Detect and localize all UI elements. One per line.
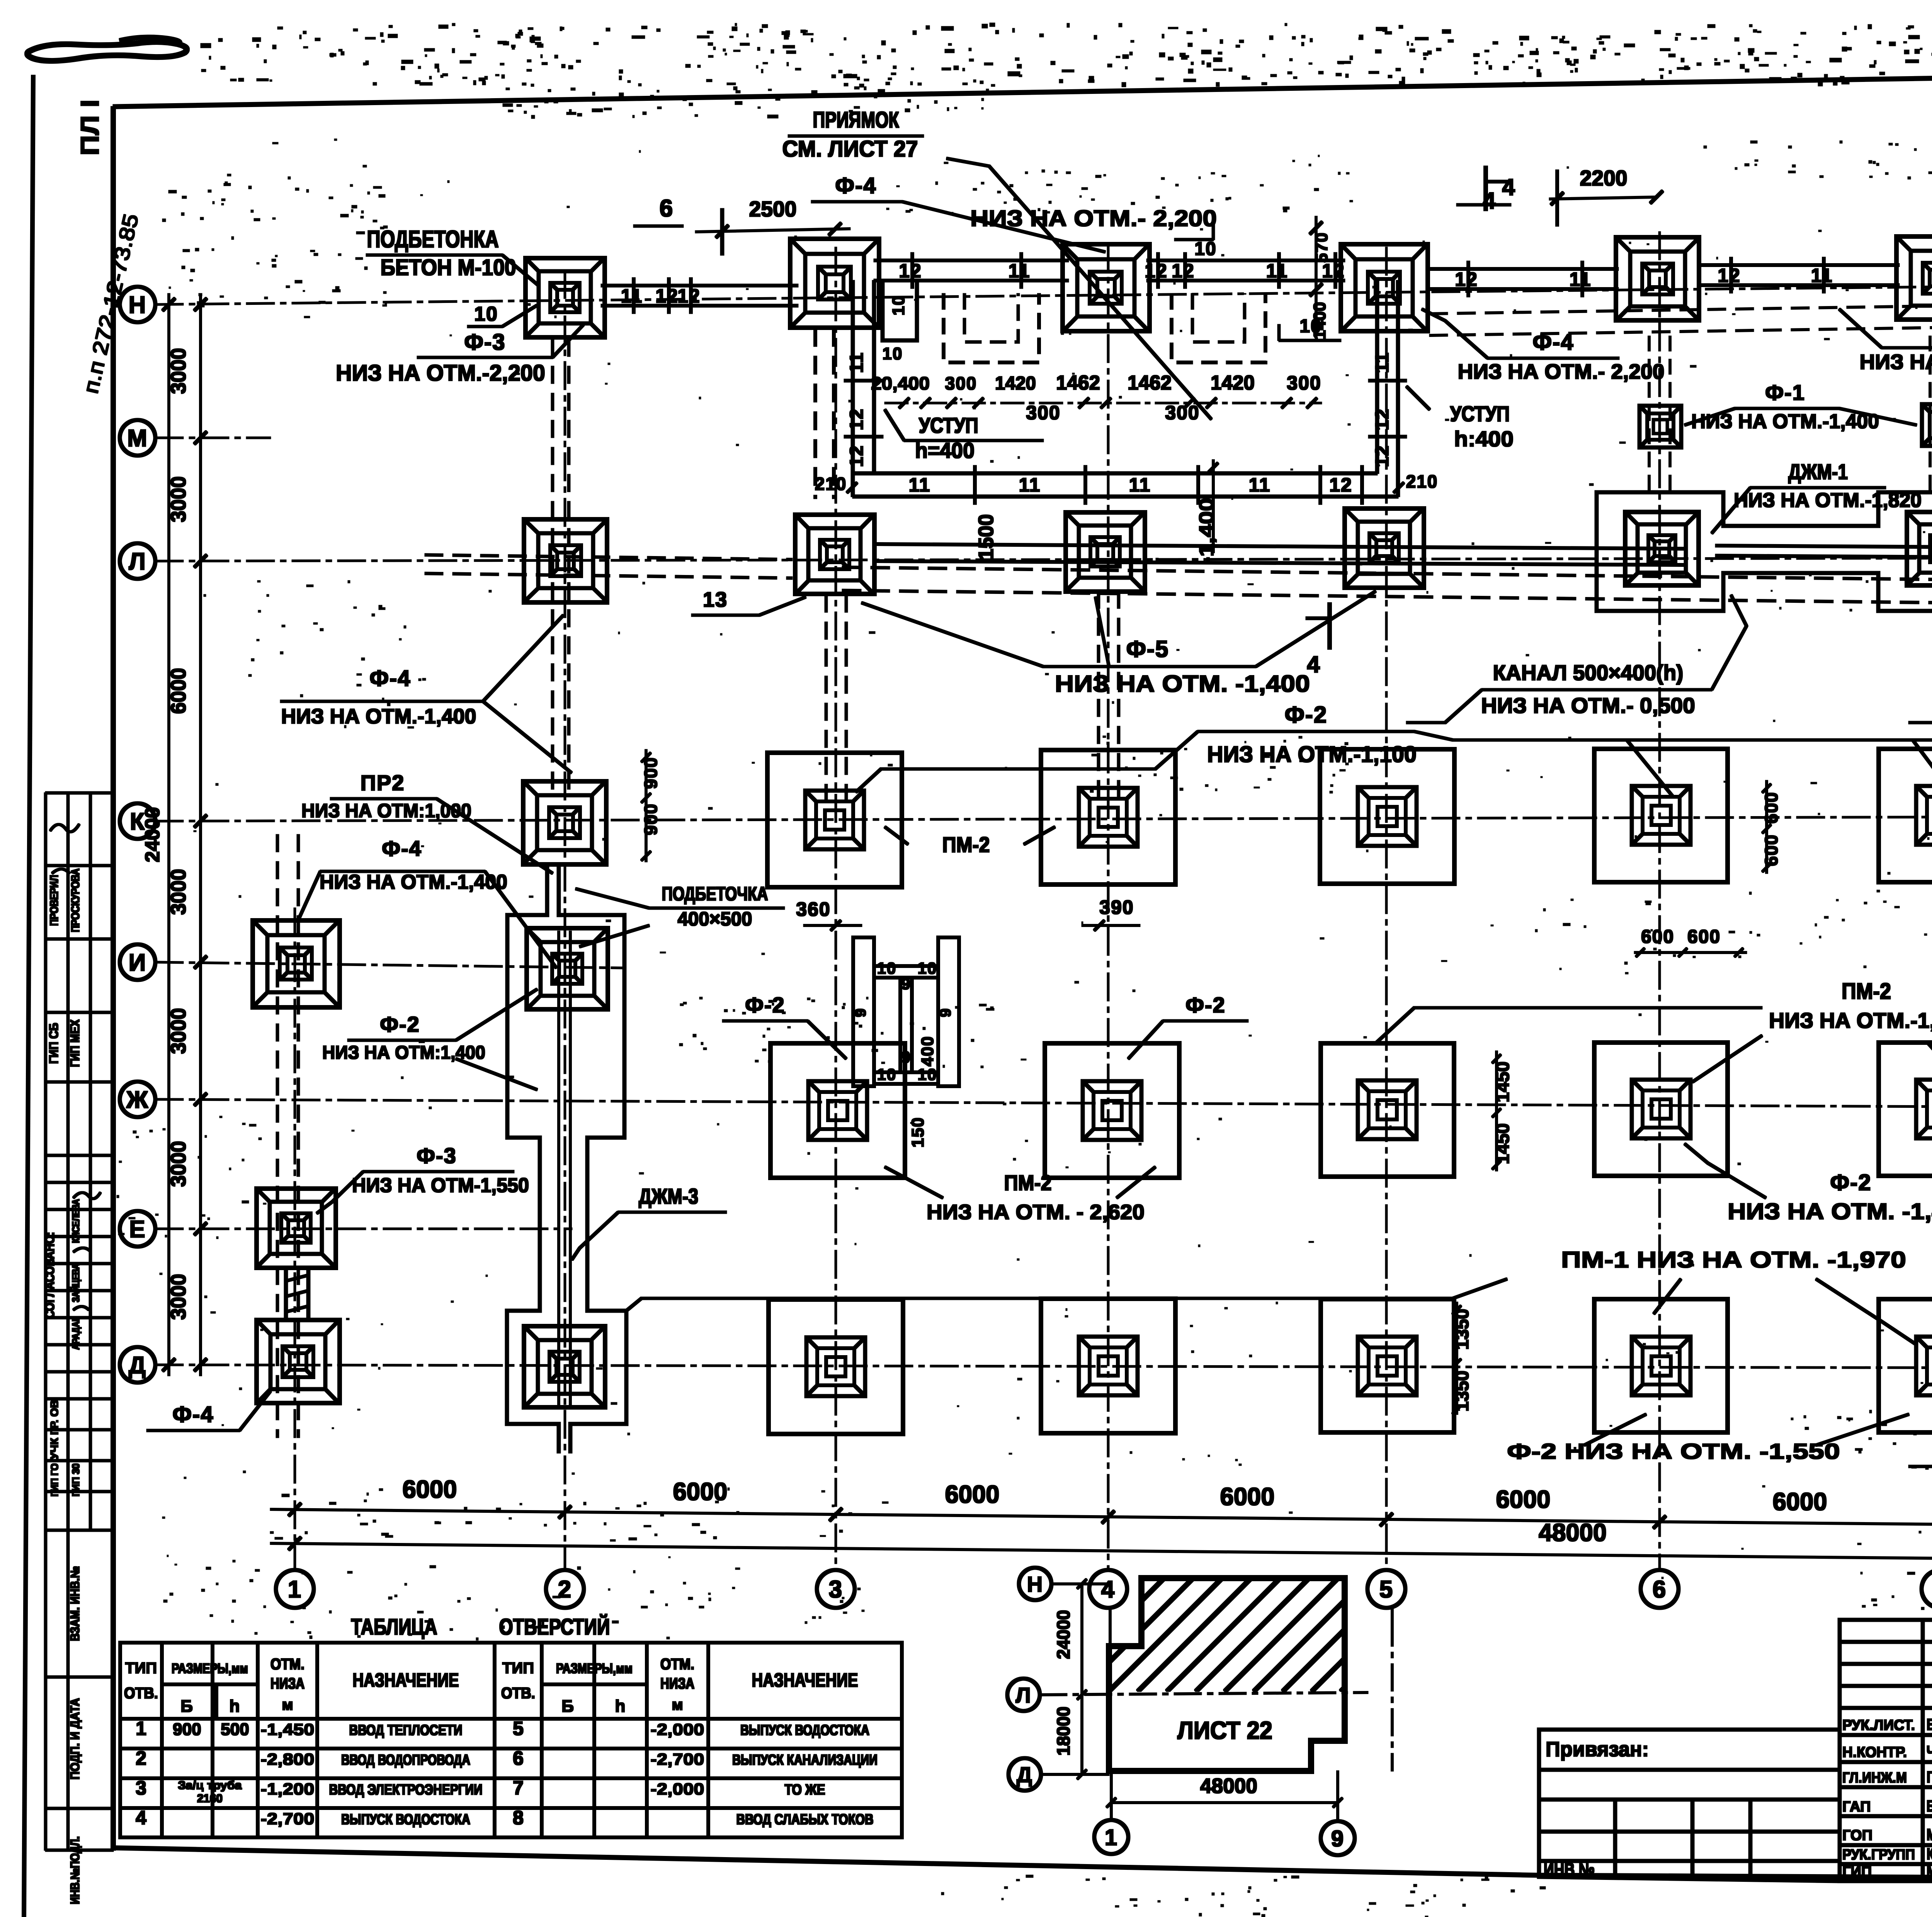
svg-text:300: 300: [1026, 402, 1060, 424]
svg-text:10: 10: [918, 959, 937, 977]
DZhM-1 outline: [1597, 492, 1723, 611]
svg-text:390: 390: [1099, 896, 1134, 918]
svg-text:10: 10: [877, 959, 897, 977]
pad F-5 3/L: [795, 515, 874, 594]
svg-text:Ф-2: Ф-2: [1285, 702, 1328, 728]
svg-text:6000: 6000: [1220, 1483, 1275, 1510]
svg-text:ОТМ.: ОТМ.: [660, 1656, 694, 1673]
dashed pair row L left: [425, 555, 792, 560]
svg-text:9: 9: [1331, 1826, 1344, 1851]
svg-text:НАЗНАЧЕНИЕ: НАЗНАЧЕНИЕ: [353, 1669, 459, 1691]
svg-text:ОТВ.: ОТВ.: [501, 1685, 535, 1702]
strip between 1/E and 1/D: [284, 1267, 287, 1322]
svg-text:6000: 6000: [1496, 1485, 1551, 1513]
row axis lines: [155, 281, 1932, 304]
pit dimension string: [885, 402, 1321, 404]
svg-text:6: 6: [1653, 1576, 1667, 1603]
svg-text:ГИП: ГИП: [1842, 1864, 1872, 1880]
svg-text:11: 11: [1266, 260, 1288, 282]
dashed col6/7 to M pads: [1648, 336, 1650, 491]
pad F-1 7/M: [1922, 404, 1932, 446]
svg-text:24000: 24000: [1053, 1610, 1073, 1659]
svg-text:Ф-4: Ф-4: [1532, 330, 1574, 355]
frame left: [111, 107, 116, 1850]
svg-text:ГИП ГО: ГИП ГО: [49, 1463, 60, 1497]
svg-text:11: 11: [1019, 474, 1041, 496]
svg-text:1: 1: [288, 1576, 302, 1603]
svg-text:ПМ-1 НИЗ НА ОТМ. -1,970: ПМ-1 НИЗ НА ОТМ. -1,970: [1561, 1247, 1906, 1272]
title block: [1539, 1620, 1932, 1881]
svg-text:ВЫПУСК ВОДОСТОКА: ВЫПУСК ВОДОСТОКА: [740, 1722, 869, 1738]
svg-text:600: 600: [1761, 792, 1781, 824]
svg-text:-1,400: -1,400: [1196, 498, 1218, 565]
svg-text:м: м: [282, 1696, 293, 1713]
svg-text:210: 210: [815, 474, 847, 494]
svg-text:1350: 1350: [1452, 1309, 1473, 1350]
svg-text:Л: Л: [1015, 1683, 1031, 1707]
svg-text:11: 11: [1249, 474, 1271, 496]
key plan: [1109, 1578, 1345, 1771]
svg-text:НИЗА: НИЗА: [660, 1675, 694, 1692]
duct inner line: [558, 931, 560, 1407]
svg-text:МАРКОВКИН: МАРКОВКИН: [1927, 1862, 1932, 1880]
svg-text:h: h: [615, 1697, 626, 1716]
svg-text:48000: 48000: [1539, 1519, 1607, 1546]
svg-text:НИЗ НА ОТМ.-2,200: НИЗ НА ОТМ.-2,200: [336, 361, 545, 386]
svg-text:9: 9: [852, 1008, 869, 1017]
svg-text:ТАБЛИЦА: ТАБЛИЦА: [351, 1614, 437, 1640]
svg-text:ДЖМ-3: ДЖМ-3: [639, 1184, 698, 1208]
svg-text:Н: Н: [1027, 1572, 1043, 1596]
pad 6/L: [1625, 512, 1699, 585]
svg-text:-2,000: -2,000: [651, 1780, 704, 1798]
svg-text:600: 600: [1641, 927, 1674, 947]
svg-text:УЧК ГР. ОВ: УЧК ГР. ОВ: [48, 1400, 60, 1459]
svg-text:БЕТОН М-100: БЕТОН М-100: [381, 255, 516, 280]
svg-text:Ф-2 НИЗ НА ОТМ. -1,550: Ф-2 НИЗ НА ОТМ. -1,550: [1507, 1439, 1840, 1463]
svg-text:3000: 3000: [167, 869, 190, 915]
svg-text:ТИП: ТИП: [502, 1660, 534, 1677]
svg-text:8: 8: [513, 1807, 524, 1829]
svg-text:м: м: [672, 1696, 683, 1713]
svg-text:Ф-2: Ф-2: [1185, 993, 1226, 1017]
left dimension chain: [168, 294, 170, 1376]
svg-text:4: 4: [1483, 188, 1496, 214]
svg-text:Ж: Ж: [126, 1087, 149, 1113]
pad PM-2 7/K: [1879, 749, 1932, 882]
svg-text:h: h: [230, 1697, 241, 1716]
svg-text:10: 10: [1194, 239, 1216, 259]
svg-text:300: 300: [1287, 372, 1321, 394]
svg-text:570: 570: [1312, 232, 1331, 262]
svg-text:Ф-4: Ф-4: [382, 836, 422, 861]
svg-text:ВВОД СЛАБЫХ ТОКОВ: ВВОД СЛАБЫХ ТОКОВ: [736, 1812, 874, 1828]
svg-text:ОТВЕРСТИЙ: ОТВЕРСТИЙ: [499, 1614, 610, 1640]
svg-text:Ф-4: Ф-4: [172, 1402, 214, 1427]
svg-text:СОГЛАСОВАНО:: СОГЛАСОВАНО:: [43, 1232, 57, 1318]
svg-text:11: 11: [621, 285, 643, 307]
svg-text:-2,800: -2,800: [261, 1750, 315, 1768]
pad F-4 5/N: [1341, 244, 1428, 332]
svg-text:18000: 18000: [1053, 1707, 1073, 1756]
dashed trench col2: [551, 339, 554, 796]
svg-text:1350: 1350: [1452, 1371, 1473, 1412]
svg-text:-2,000: -2,000: [651, 1720, 704, 1738]
pad PM-2 6/K: [1594, 749, 1728, 882]
svg-text:400: 400: [918, 1036, 937, 1066]
svg-text:ПРОВЕРИЛ: ПРОВЕРИЛ: [48, 875, 61, 926]
svg-text:ТИП: ТИП: [125, 1660, 157, 1677]
pad F-5 2/L: [524, 519, 607, 602]
pad F-4 4/N: [1063, 244, 1150, 332]
svg-text:6000: 6000: [403, 1475, 457, 1503]
svg-text:Ф-2: Ф-2: [1830, 1170, 1871, 1195]
svg-text:НИЗ НА ОТМ.-1,400: НИЗ НА ОТМ.-1,400: [281, 705, 476, 728]
frame bottom: [113, 1848, 1539, 1875]
svg-text:ГЛ.ИНЖ.М: ГЛ.ИНЖ.М: [1842, 1770, 1907, 1786]
svg-text:ВЫПУСК КАНАЛИЗАЦИИ: ВЫПУСК КАНАЛИЗАЦИИ: [732, 1752, 878, 1768]
svg-text:6000: 6000: [167, 668, 190, 714]
svg-text:12: 12: [899, 260, 922, 282]
svg-text:НИЗ НА ОТМ.- 1,400: НИЗ НА ОТМ.- 1,400: [1860, 350, 1932, 374]
svg-text:НИЗ НА ОТМ.-1,400: НИЗ НА ОТМ.-1,400: [320, 871, 507, 893]
pad PM-2 3/Zh: [770, 1043, 905, 1178]
pad F-4 2/D: [524, 1326, 605, 1407]
canal 500x400 dashed along L: [842, 567, 1932, 583]
svg-text:-2,700: -2,700: [651, 1750, 704, 1768]
svg-text:3000: 3000: [167, 1274, 190, 1320]
svg-text:9: 9: [937, 1008, 954, 1017]
svg-text:ГИП 30: ГИП 30: [70, 1463, 82, 1497]
svg-text:Привязан:: Привязан:: [1546, 1738, 1649, 1761]
svg-text:УСТУП: УСТУП: [919, 413, 978, 437]
svg-text:За/ц труба: За/ц труба: [178, 1779, 242, 1792]
pad PM-2 6/Zh: [1594, 1043, 1728, 1176]
svg-text:Н: Н: [129, 292, 147, 318]
svg-text:12: 12: [1455, 269, 1478, 290]
svg-text:3000: 3000: [167, 348, 190, 394]
sheet outer edge left: [24, 75, 33, 1917]
svg-text:Ф-2: Ф-2: [745, 993, 785, 1017]
pad PM-2 4/K: [1041, 750, 1175, 885]
svg-text:10: 10: [877, 1065, 897, 1084]
svg-text:7: 7: [513, 1777, 524, 1799]
svg-text:150: 150: [908, 1117, 927, 1147]
pit walls (priamok): [851, 281, 854, 497]
svg-text:12: 12: [1172, 260, 1195, 282]
svg-text:24000: 24000: [141, 807, 164, 862]
svg-text:h=400: h=400: [915, 438, 975, 463]
svg-text:Д: Д: [1017, 1762, 1033, 1787]
svg-text:ПРОСКУРОВА: ПРОСКУРОВА: [69, 869, 82, 932]
svg-text:6: 6: [513, 1747, 524, 1769]
svg-text:НИЗА: НИЗА: [270, 1675, 304, 1692]
svg-text:ТО ЖЕ: ТО ЖЕ: [785, 1782, 825, 1798]
svg-text:10: 10: [918, 1065, 937, 1084]
svg-text:ПМ-2: ПМ-2: [1004, 1170, 1052, 1195]
section mark 4 bottom: [1328, 603, 1332, 649]
svg-text:АРАДАК: АРАДАК: [70, 1317, 82, 1350]
svg-text:12: 12: [677, 285, 701, 307]
svg-text:10: 10: [883, 344, 903, 363]
svg-text:ИНВ №: ИНВ №: [1544, 1860, 1595, 1880]
svg-text:13: 13: [703, 588, 728, 611]
svg-text:ЧЕСОВА: ЧЕСОВА: [1927, 1742, 1932, 1761]
svg-text:НИЗ НА ОТМ.-1,820: НИЗ НА ОТМ.-1,820: [1734, 489, 1922, 512]
svg-text:Л: Л: [129, 548, 146, 575]
svg-text:Ф-1: Ф-1: [1765, 380, 1805, 405]
svg-text:6000: 6000: [945, 1480, 1000, 1508]
svg-text:12: 12: [847, 445, 867, 467]
key plan dims: [1081, 1584, 1083, 1774]
svg-text:Н.КОНТР.: Н.КОНТР.: [1842, 1744, 1907, 1761]
svg-text:360: 360: [796, 898, 830, 920]
svg-text:4: 4: [1101, 1576, 1115, 1603]
pad F-4 6/N: [1616, 237, 1699, 321]
svg-text:1462: 1462: [1056, 372, 1100, 394]
small duct frame 3-4/I-Zh: [853, 937, 959, 1086]
dashed trench col4: [1097, 591, 1100, 808]
svg-text:11: 11: [1570, 269, 1592, 290]
svg-text:НИЗ НА ОТМ. -1,400: НИЗ НА ОТМ. -1,400: [1055, 671, 1310, 697]
svg-text:48000: 48000: [1200, 1774, 1257, 1798]
svg-text:ДЖМ-1: ДЖМ-1: [1788, 459, 1848, 484]
svg-text:h:400: h:400: [1454, 427, 1514, 451]
svg-text:3000: 3000: [167, 1141, 190, 1187]
pit dashed trench right: [1172, 294, 1265, 362]
pad F-4 1/D: [257, 1320, 340, 1403]
pad PM-1 3/D: [769, 1300, 903, 1434]
pad F-3 1/E: [257, 1189, 336, 1268]
svg-text:Ф-4: Ф-4: [369, 666, 411, 691]
svg-text:ВЫПУСК ВОДОСТОКА: ВЫПУСК ВОДОСТОКА: [341, 1812, 470, 1828]
svg-text:ПР2: ПР2: [361, 771, 405, 795]
column axis circles: [276, 1570, 314, 1608]
svg-text:11: 11: [1009, 260, 1031, 282]
frame top: [113, 66, 1932, 107]
svg-text:КАРПАЧЕВА: КАРПАЧЕВА: [1927, 1845, 1932, 1863]
svg-text:Б: Б: [180, 1697, 194, 1716]
svg-text:2500: 2500: [749, 197, 797, 221]
pit dashed trench left: [944, 294, 1039, 362]
svg-text:КИСЕЛЕВА: КИСЕЛЕВА: [70, 1199, 82, 1243]
pad F-2 2/I: [527, 928, 608, 1009]
svg-text:12: 12: [847, 408, 867, 430]
svg-text:1420: 1420: [1211, 372, 1255, 394]
pad PM-2 4/Zh: [1045, 1043, 1179, 1178]
svg-text:ЛИСТ 22: ЛИСТ 22: [1177, 1716, 1272, 1744]
svg-text:ОТВ.: ОТВ.: [124, 1685, 158, 1702]
svg-text:ГАЙДВЕР: ГАЙДВЕР: [1927, 1767, 1932, 1786]
row axis circles: [120, 287, 155, 322]
svg-text:-2,700: -2,700: [261, 1810, 315, 1828]
svg-text:ПОДБЕТОЧКА: ПОДБЕТОЧКА: [662, 883, 768, 905]
svg-text:Ф-3: Ф-3: [464, 330, 505, 355]
svg-text:СМ. ЛИСТ 27: СМ. ЛИСТ 27: [782, 136, 918, 162]
svg-text:РАЗМЕРЫ,мм: РАЗМЕРЫ,мм: [172, 1660, 248, 1676]
svg-text:ПЛ I: ПЛ I: [75, 100, 104, 156]
svg-text:20,400: 20,400: [871, 373, 930, 393]
pad PM-1 5/D: [1321, 1299, 1454, 1432]
svg-text:4: 4: [1502, 174, 1515, 200]
trench dashed lines below strip N: [1430, 302, 1932, 314]
svg-text:Ф-3: Ф-3: [417, 1143, 457, 1168]
svg-text:УСТУП: УСТУП: [1450, 401, 1510, 426]
svg-text:2160: 2160: [197, 1792, 223, 1805]
pad F-5 4/L: [1066, 512, 1145, 592]
bottom dimension lines: [270, 1509, 1932, 1529]
pad PM-1 6/D: [1594, 1299, 1728, 1432]
svg-text:5: 5: [1379, 1576, 1393, 1603]
svg-text:ВЗАМ. ИНВ.№: ВЗАМ. ИНВ.№: [68, 1566, 82, 1641]
svg-text:300: 300: [1165, 402, 1199, 424]
svg-text:11: 11: [1811, 265, 1833, 286]
strip foundation along axis N: [601, 284, 798, 287]
pad F-4 7/N: [1896, 236, 1932, 320]
svg-text:ПМ-2: ПМ-2: [942, 832, 990, 857]
svg-text:600: 600: [1761, 834, 1781, 866]
dashed trench col1: [276, 835, 279, 1437]
svg-text:ПРИЯМОК: ПРИЯМОК: [813, 107, 899, 133]
svg-text:1: 1: [1105, 1825, 1118, 1850]
svg-text:12: 12: [1372, 408, 1393, 430]
svg-text:900: 900: [173, 1720, 201, 1739]
svg-text:Б: Б: [561, 1697, 575, 1716]
svg-text:2: 2: [136, 1747, 146, 1769]
svg-text:ГИП СБ: ГИП СБ: [47, 1023, 61, 1064]
svg-text:ГАП: ГАП: [1842, 1799, 1871, 1815]
svg-text:9: 9: [901, 975, 911, 993]
svg-text:ИНВ.№ПОДЛ.: ИНВ.№ПОДЛ.: [68, 1836, 82, 1904]
svg-text:6: 6: [660, 195, 673, 222]
svg-text:М: М: [127, 425, 148, 452]
strip along L: [877, 544, 1685, 549]
svg-text:5: 5: [513, 1718, 524, 1739]
svg-text:12: 12: [1372, 445, 1393, 467]
svg-text:3: 3: [136, 1777, 146, 1799]
svg-text:НИЗ НА ОТМ. - 2,620: НИЗ НА ОТМ. - 2,620: [927, 1201, 1145, 1224]
torn label marks: [27, 42, 187, 61]
svg-text:10: 10: [889, 295, 908, 316]
pad PM-2 5/Zh: [1321, 1043, 1454, 1177]
svg-text:И: И: [129, 949, 147, 976]
svg-text:-1,450: -1,450: [261, 1720, 315, 1738]
svg-text:11: 11: [847, 352, 867, 373]
svg-text:ЗАЙЦЕВА: ЗАЙЦЕВА: [70, 1264, 82, 1302]
svg-text:-1,200: -1,200: [261, 1780, 315, 1798]
svg-text:ВВОД ТЕПЛОСЕТИ: ВВОД ТЕПЛОСЕТИ: [349, 1722, 463, 1738]
svg-text:РУК.ЛИСТ.: РУК.ЛИСТ.: [1842, 1717, 1915, 1733]
svg-text:11: 11: [909, 474, 931, 496]
svg-text:БАРЫШЕВА: БАРЫШЕВА: [1927, 1797, 1932, 1815]
svg-text:НИЗ НА ОТМ.-1,820: НИЗ НА ОТМ.-1,820: [1769, 1008, 1932, 1032]
key plan axes: [1019, 1568, 1051, 1600]
pad PM-1 7/D: [1879, 1299, 1932, 1432]
svg-text:1500: 1500: [975, 514, 998, 560]
svg-text:ОТМ.: ОТМ.: [270, 1656, 304, 1673]
svg-text:НИЗ НА ОТМ. -1,400: НИЗ НА ОТМ. -1,400: [1728, 1199, 1932, 1224]
svg-text:ПОДП. И ДАТА: ПОДП. И ДАТА: [68, 1698, 82, 1780]
svg-text:6000: 6000: [673, 1478, 728, 1505]
svg-text:1420: 1420: [995, 373, 1036, 394]
svg-text:12: 12: [1329, 474, 1352, 496]
svg-text:900: 900: [641, 803, 661, 835]
pit stub wall: [883, 281, 917, 340]
pad PM-1 4/D: [1041, 1299, 1175, 1433]
pad F-5 5/L: [1345, 509, 1424, 588]
svg-text:Ф-5: Ф-5: [1126, 636, 1169, 662]
pad F-3 2/N: [526, 258, 605, 337]
svg-text:ГИП МЕХ: ГИП МЕХ: [68, 1019, 82, 1067]
pad F-4 3/N: [790, 239, 879, 328]
svg-text:ПМ-2: ПМ-2: [1842, 979, 1891, 1004]
svg-text:2: 2: [558, 1576, 572, 1603]
section mark 4 top: [1484, 166, 1488, 211]
svg-text:ПОДБЕТОНКА: ПОДБЕТОНКА: [367, 226, 499, 253]
svg-text:11: 11: [1372, 352, 1393, 373]
top dim 2500: [696, 229, 850, 232]
svg-text:НИЗ НА ОТМ.- 2,200: НИЗ НА ОТМ.- 2,200: [1458, 360, 1665, 383]
svg-text:400×500: 400×500: [678, 908, 752, 930]
pad F-1 6/M: [1639, 406, 1681, 447]
svg-text:4: 4: [136, 1807, 146, 1829]
svg-text:КАНАЛ 500×400(h): КАНАЛ 500×400(h): [1493, 660, 1684, 685]
svg-text:11: 11: [1129, 474, 1151, 496]
svg-text:Ф-4: Ф-4: [835, 173, 876, 198]
svg-text:6000: 6000: [1773, 1488, 1827, 1516]
svg-text:300: 300: [945, 373, 977, 393]
pad PM-2 5/K: [1320, 749, 1454, 884]
svg-text:600: 600: [1687, 927, 1721, 947]
svg-text:ГОП: ГОП: [1842, 1827, 1872, 1844]
svg-text:500: 500: [221, 1720, 249, 1739]
svg-text:НИЗ НА ОТМ:1,000: НИЗ НА ОТМ:1,000: [301, 800, 471, 822]
svg-text:1400: 1400: [1310, 302, 1329, 340]
svg-text:БИКСОН: БИКСОН: [1927, 1715, 1932, 1733]
svg-text:РАЗМЕРЫ,мм: РАЗМЕРЫ,мм: [556, 1660, 633, 1676]
svg-text:НАЗНАЧЕНИЕ: НАЗНАЧЕНИЕ: [752, 1669, 858, 1691]
pad F-4 1/I: [253, 920, 340, 1007]
svg-text:ВВОД ЭЛЕКТРОЭНЕРГИИ: ВВОД ЭЛЕКТРОЭНЕРГИИ: [329, 1782, 483, 1798]
svg-text:МАРКОВКИН: МАРКОВКИН: [1927, 1825, 1932, 1844]
svg-text:НИЗ НА ОТМ.- 0,500: НИЗ НА ОТМ.- 0,500: [1481, 693, 1695, 718]
svg-text:НИЗ НА ОТМ-1,550: НИЗ НА ОТМ-1,550: [352, 1174, 529, 1197]
pad PM-2 3/K: [767, 753, 902, 887]
svg-text:1: 1: [136, 1718, 146, 1739]
svg-text:1462: 1462: [1128, 372, 1172, 394]
svg-text:210: 210: [1406, 471, 1438, 492]
dashed trench col3: [825, 595, 827, 810]
svg-text:10: 10: [474, 303, 498, 325]
svg-text:2200: 2200: [1580, 166, 1628, 190]
svg-text:900: 900: [641, 757, 661, 789]
svg-text:РУК.ГРУПП: РУК.ГРУПП: [1842, 1847, 1915, 1863]
pad PM-2 7/Zh: [1879, 1043, 1932, 1176]
svg-text:3000: 3000: [167, 1008, 190, 1054]
pad PR2 2/K: [523, 781, 606, 864]
svg-text:3000: 3000: [167, 476, 190, 522]
svg-text:3: 3: [829, 1576, 843, 1603]
svg-text:Д: Д: [129, 1352, 146, 1379]
column axis lines: [294, 908, 296, 1570]
margin stamp strip: [46, 793, 113, 1850]
svg-text:Е: Е: [129, 1216, 146, 1243]
svg-text:ВВОД ВОДОПРОВОДА: ВВОД ВОДОПРОВОДА: [341, 1752, 470, 1768]
svg-text:12: 12: [655, 285, 679, 307]
svg-text:НИЗ НА ОТМ.-1,100: НИЗ НА ОТМ.-1,100: [1207, 742, 1417, 767]
pad 7/L: [1907, 512, 1932, 585]
svg-text:Ф-2: Ф-2: [380, 1012, 420, 1036]
